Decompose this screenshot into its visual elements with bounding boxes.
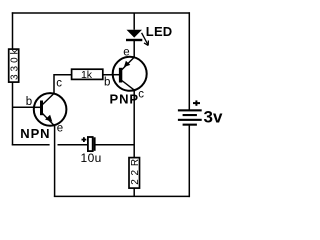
battery plus sign: [193, 100, 200, 105]
svg-text:b: b: [104, 77, 110, 89]
wire left rail upper: [12, 12, 14, 49]
resistor R1 330k: [9, 46, 21, 82]
wire right rail upper: [188, 12, 190, 109]
wire bottom rail: [54, 195, 190, 197]
svg-text:22R: 22R: [130, 155, 141, 185]
svg-text:330k: 330k: [10, 46, 21, 80]
LED light arrow: [142, 33, 149, 46]
svg-text:e: e: [57, 122, 63, 134]
wire Q1 emitter vertical: [54, 126, 56, 197]
resistor R2 1k: [72, 69, 103, 81]
svg-text:b: b: [26, 96, 32, 108]
battery B1 3v: [178, 109, 202, 125]
svg-text:10u: 10u: [81, 151, 102, 165]
wire top rail: [12, 12, 190, 14]
svg-text:3v: 3v: [204, 107, 223, 126]
wire 1k to Q2 base: [103, 74, 120, 76]
svg-text:c: c: [56, 78, 62, 90]
svg-text:LED: LED: [146, 24, 173, 39]
resistor R3 22R: [129, 155, 141, 188]
svg-text:1k: 1k: [81, 69, 93, 81]
wire 22R to bottom rail: [133, 188, 135, 196]
wire right rail lower: [188, 126, 190, 198]
svg-text:NPN: NPN: [20, 126, 50, 141]
wire left rail lower: [12, 82, 14, 145]
wire Q2 emitter to LED: [133, 41, 135, 58]
wire NPN base: [13, 106, 41, 108]
capacitor C1 10u: [88, 137, 134, 151]
transistor Q2 PNP: [112, 57, 147, 91]
svg-text:e: e: [123, 47, 129, 59]
capacitor plus sign: [82, 137, 87, 142]
wire Q2 collector vertical: [133, 91, 135, 158]
svg-text:c: c: [138, 89, 144, 101]
wire Q1 collector vertical: [54, 75, 72, 94]
wire bottom-left horizontal to capacitor (crossover gap at emitter): [12, 144, 89, 146]
LED D1: [126, 13, 142, 41]
transistor Q1 NPN: [33, 93, 66, 126]
